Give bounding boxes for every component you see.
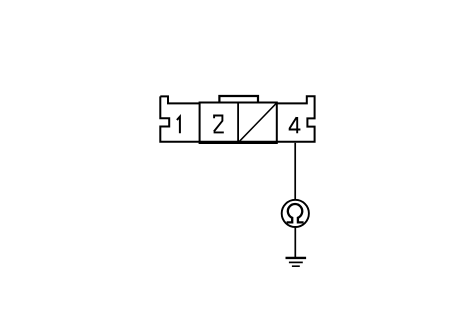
ground G1 bar 2 [289,261,303,263]
omega symbol inside condenser [287,204,304,222]
connector housing J1 [160,96,314,142]
divider pin2/pin3 [237,103,239,144]
connector top tab [219,96,258,103]
pin 2 label [214,116,224,133]
wire condenser to ground [294,227,296,257]
pin 1 label [177,117,180,134]
pin 4 label [289,117,301,133]
cavity box pins 2-3 [200,103,277,144]
noise condenser circle [282,200,309,227]
ground G1 bar 3 [292,265,300,267]
diagonal in empty pin 3 cavity [239,103,277,142]
ground G1 bar 1 [286,257,307,259]
wire pin 4 to noise condenser [294,143,296,200]
